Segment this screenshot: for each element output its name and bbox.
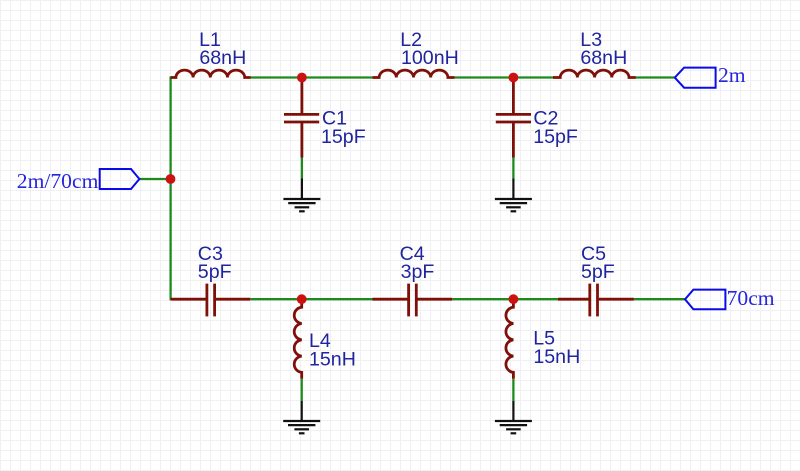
capacitor C4 (373, 284, 453, 317)
inductor L2 (372, 70, 454, 77)
ground under C1 (283, 179, 320, 212)
inductor L5 (506, 299, 513, 379)
wire L2 to L3 through node C2 (455, 76, 554, 78)
svg-text:2m/70cm: 2m/70cm (17, 169, 99, 193)
wire C2 bottom to GND (512, 158, 514, 179)
capacitor C1 (284, 78, 319, 158)
inductor L3 (553, 70, 636, 77)
svg-text:15pF: 15pF (533, 126, 578, 148)
wire L5 bottom to GND (512, 379, 514, 401)
svg-text:68nH: 68nH (199, 47, 246, 69)
capacitor C3 (171, 284, 251, 317)
junction node L5/bottom rail (509, 294, 519, 304)
ground under L5 (495, 401, 532, 433)
capacitor C5 (558, 284, 634, 317)
wire L1 to L2 through node C1 (251, 76, 373, 78)
svg-text:5pF: 5pF (198, 261, 232, 283)
port 2m shape (675, 68, 716, 88)
svg-text:70cm: 70cm (727, 286, 775, 310)
svg-text:2m: 2m (718, 63, 746, 87)
svg-text:100nH: 100nH (401, 47, 459, 69)
port 2m/70cm shape (100, 169, 140, 189)
junction node L4/bottom rail (297, 294, 307, 304)
wire L4 bottom to GND (301, 379, 303, 401)
capacitor C2 (496, 78, 531, 158)
svg-text:3pF: 3pF (401, 261, 435, 283)
ground under C2 (495, 179, 532, 212)
wire C4 to C5 through node L5 (452, 298, 558, 300)
svg-text:68nH: 68nH (580, 47, 627, 69)
wire C1 bottom to GND (301, 158, 303, 179)
inductor L1 (171, 70, 251, 77)
port 70cm shape (685, 290, 725, 310)
wire vertical left bus from L1 corner down to C3 corner (169, 76, 171, 300)
wire L3 to port 2m (636, 76, 675, 78)
svg-text:5pF: 5pF (581, 261, 615, 283)
junction node C2/top rail (509, 73, 519, 83)
junction node C1/top rail (297, 73, 307, 83)
wire C5 to port 70cm (634, 298, 685, 300)
wire input stub from port 2m/70cm to bus (139, 178, 170, 180)
svg-text:15nH: 15nH (533, 346, 580, 368)
wire C3 to C4 through node L4 (250, 298, 372, 300)
svg-text:15pF: 15pF (321, 126, 366, 148)
inductor L4 (294, 299, 301, 379)
ground under L4 (283, 401, 320, 433)
svg-text:15nH: 15nH (309, 348, 356, 370)
junction node input bus (166, 174, 176, 184)
